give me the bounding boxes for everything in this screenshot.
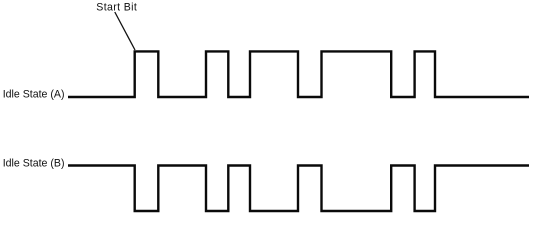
svg-text:Start Bit: Start Bit — [96, 2, 137, 14]
svg-text:Idle State (B): Idle State (B) — [3, 158, 65, 170]
waveform A (idle low with high pulses) — [68, 51, 529, 97]
waveform B (idle high with low pulses) — [68, 166, 529, 212]
leader line from Start Bit label to first rising edge — [115, 12, 135, 50]
svg-text:Idle State (A): Idle State (A) — [3, 88, 65, 100]
